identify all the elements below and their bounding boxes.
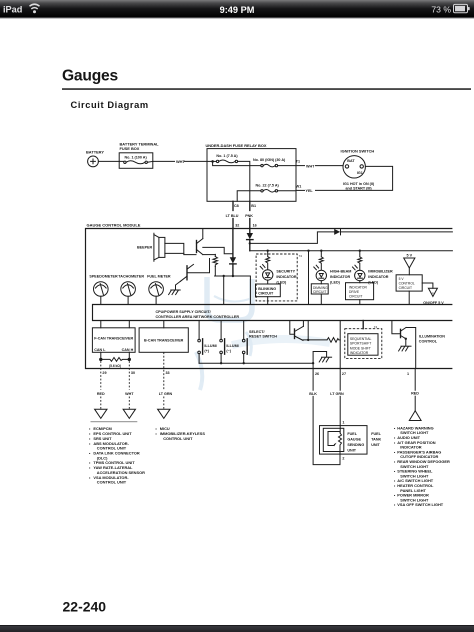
fuse No.1 (100 A) <box>119 156 153 164</box>
node immobilizer tap <box>359 250 361 252</box>
svg-text:SPORTSHIFT: SPORTSHIFT <box>350 342 371 346</box>
svg-text:CIRCUIT: CIRCUIT <box>313 290 326 294</box>
illumi minus connector <box>220 321 222 340</box>
svg-text:30: 30 <box>131 371 135 375</box>
wire LT GRN fuel signal <box>339 369 341 434</box>
off-page arrow A2 <box>123 409 135 418</box>
svg-text:27: 27 <box>342 372 346 376</box>
svg-text:CIRCUIT: CIRCUIT <box>399 286 412 290</box>
svg-text:RED: RED <box>411 392 419 396</box>
off-page arrow A4 <box>409 411 421 421</box>
svg-text:UNIT: UNIT <box>371 443 380 447</box>
svg-text:INDICATOR: INDICATOR <box>349 286 367 290</box>
security indicator dashed enclosure <box>256 254 297 301</box>
svg-text:WHT: WHT <box>306 165 315 169</box>
svg-text:(+): (+) <box>204 349 209 353</box>
svg-text:DRIVE: DRIVE <box>349 290 360 294</box>
destination list middle <box>155 426 205 441</box>
speedometer M1 <box>89 275 118 305</box>
svg-text:No. 22 (7.5 A): No. 22 (7.5 A) <box>256 183 280 187</box>
svg-text:SENDING: SENDING <box>347 443 364 447</box>
svg-text:LT GRN: LT GRN <box>330 392 344 396</box>
wire PNK to LED rail <box>249 240 251 251</box>
svg-text:GAUGE: GAUGE <box>347 438 361 442</box>
svg-text:A: A <box>432 291 434 295</box>
wire rail to CPU <box>223 276 225 305</box>
wire drop to beeper ground rail <box>214 254 216 276</box>
svg-text:CONTROL UNIT: CONTROL UNIT <box>97 480 127 485</box>
sequential sportshift indicator box <box>348 334 378 356</box>
svg-text:RESET SWITCH: RESET SWITCH <box>249 334 277 338</box>
indicator drive circuit box <box>359 281 361 283</box>
svg-text:16: 16 <box>253 224 257 228</box>
B-CAN dashed lead <box>163 352 165 409</box>
node high-beam tap <box>320 250 322 252</box>
off-page arrow A1 <box>95 409 107 418</box>
svg-text:CONTROL: CONTROL <box>419 340 438 344</box>
bypass wire to fuse No.80 <box>213 161 261 165</box>
svg-text:WHT: WHT <box>125 392 134 396</box>
svg-text:W1: W1 <box>296 184 302 188</box>
destination list left <box>89 426 145 484</box>
svg-text:PNK: PNK <box>245 214 253 218</box>
svg-text:5 V: 5 V <box>399 277 405 281</box>
dimming circuit box <box>320 281 322 284</box>
svg-text:No. 80 (IGN) (30 A): No. 80 (IGN) (30 A) <box>253 158 286 162</box>
sequential sportshift dashed enclosure <box>345 329 382 359</box>
bracket under arrows <box>91 421 138 423</box>
svg-text:Circuit Diagram: Circuit Diagram <box>71 100 149 110</box>
svg-text:UNIT: UNIT <box>347 449 356 453</box>
svg-text:HIGH-BEAM: HIGH-BEAM <box>330 270 351 274</box>
svg-text:MODE SHIFT: MODE SHIFT <box>350 346 371 350</box>
svg-text:32: 32 <box>235 224 239 228</box>
svg-text:TACHOMETER: TACHOMETER <box>118 275 144 279</box>
LED D4 security indicator <box>260 265 273 280</box>
svg-text:ILLUMI: ILLUMI <box>204 344 216 348</box>
svg-text:ILLUMINATION: ILLUMINATION <box>419 335 445 339</box>
svg-text:BEEPER: BEEPER <box>137 246 153 250</box>
under-dash fuse relay box <box>206 143 297 201</box>
wire fuse No.22 to C8 drop <box>237 191 261 202</box>
svg-text:CONTROL: CONTROL <box>399 282 415 286</box>
svg-text:BLINKING: BLINKING <box>258 287 276 291</box>
wire beeper step to LT BLU <box>203 247 233 253</box>
wire battery to battery terminal fuse box <box>98 160 119 162</box>
svg-text:FUSE BOX: FUSE BOX <box>120 146 140 151</box>
illumi plus connector <box>198 321 200 340</box>
fuel sender signal lead LT GRN <box>339 321 341 369</box>
svg-text:UNDER-DASH FUSE RELAY BOX: UNDER-DASH FUSE RELAY BOX <box>206 143 267 148</box>
svg-text:SELECT/: SELECT/ <box>249 330 265 334</box>
wire WHT to ignition switch <box>296 165 305 167</box>
svg-text:T1: T1 <box>296 160 300 164</box>
svg-text:FUEL: FUEL <box>371 432 381 436</box>
resistor R5 <box>303 338 340 343</box>
wire beeper output upper <box>165 243 196 254</box>
battery terminal fuse box <box>119 142 159 169</box>
svg-text:CIRCUIT: CIRCUIT <box>349 294 362 298</box>
svg-text:RED: RED <box>97 392 105 396</box>
svg-text:ILLUMI: ILLUMI <box>226 344 238 348</box>
svg-text:BAT: BAT <box>347 159 355 163</box>
B-CAN transceiver box <box>163 321 165 328</box>
transistor Q3 select/reset sense <box>290 321 294 335</box>
ground G1 <box>169 290 181 295</box>
svg-text:INDICATOR: INDICATOR <box>330 275 350 279</box>
fuel gauge sending unit box <box>323 428 344 451</box>
wire PNK B1 to module <box>249 201 251 228</box>
fuel sender variable resistor <box>328 432 342 451</box>
svg-text:VSA OFF SWITCH LIGHT: VSA OFF SWITCH LIGHT <box>397 502 444 507</box>
svg-text:INDICATOR: INDICATOR <box>368 275 388 279</box>
ignition switch SW1 <box>341 149 375 191</box>
tachometer M2 <box>118 275 144 305</box>
CAN termination resistor R4 <box>101 352 130 359</box>
ground G2 <box>319 357 331 362</box>
svg-text:SEQUENTIAL: SEQUENTIAL <box>350 337 372 341</box>
node: main feed junction <box>211 160 214 163</box>
svg-text:CIRCUIT: CIRCUIT <box>258 292 274 296</box>
svg-text:LT BLU: LT BLU <box>226 214 239 218</box>
module internal ground link <box>313 352 327 369</box>
CAN L dashed lead <box>100 361 102 409</box>
transistor Q4 illumination control <box>392 321 400 334</box>
svg-text:CPU/POWER SUPPLY CIRCUIT/: CPU/POWER SUPPLY CIRCUIT/ <box>156 310 211 314</box>
svg-text:INDICATOR: INDICATOR <box>350 351 369 355</box>
wire branch to backup diode rail <box>250 232 334 244</box>
svg-text:5 V: 5 V <box>407 254 413 258</box>
transistor Q2 fuel-meter area <box>176 259 210 290</box>
svg-text:BATTERY: BATTERY <box>86 150 104 155</box>
svg-text:SPEEDOMETER: SPEEDOMETER <box>89 275 118 279</box>
wire fuse No.1 to B1 drop <box>238 161 250 201</box>
battery icon <box>454 4 468 12</box>
svg-text:INDICATOR: INDICATOR <box>276 275 296 279</box>
destination list right <box>394 425 450 507</box>
fuel tank unit box <box>320 426 368 455</box>
blinking circuit box <box>267 280 269 284</box>
svg-text:CAN L: CAN L <box>94 348 106 352</box>
svg-text:1: 1 <box>342 421 344 425</box>
F-CAN transceiver box <box>101 321 130 328</box>
wire CPU sense drop <box>307 321 309 340</box>
bottom toolbar <box>0 625 474 632</box>
svg-text:GAUGE CONTROL MODULE: GAUGE CONTROL MODULE <box>87 222 141 227</box>
wire IG1 return loop <box>316 166 393 190</box>
node PNK branch junction <box>249 242 251 244</box>
heading rule <box>62 88 471 90</box>
svg-text:33: 33 <box>166 371 170 375</box>
node security tap <box>267 250 269 252</box>
svg-text:SECURITY: SECURITY <box>276 270 295 274</box>
wire RED illumination output <box>414 369 416 411</box>
svg-text:B-CAN TRANSCEIVER: B-CAN TRANSCEIVER <box>144 339 184 343</box>
battery B1 <box>86 150 104 167</box>
transistor Q1 beeper driver <box>197 229 216 255</box>
illumination ground rail <box>199 362 313 364</box>
svg-text:iPad: iPad <box>3 5 22 15</box>
svg-text:26: 26 <box>315 372 319 376</box>
LED D5 high-beam indicator <box>314 265 327 280</box>
wifi icon <box>30 4 40 9</box>
resistor R1 security <box>266 251 270 270</box>
svg-text:LT GRN: LT GRN <box>159 392 173 396</box>
sportshift indicator lead <box>362 321 364 329</box>
svg-text:74: 74 <box>374 325 378 329</box>
svg-text:C8: C8 <box>234 204 239 208</box>
svg-text:9:49 PM: 9:49 PM <box>220 5 255 15</box>
svg-text:IMMOBILIZER: IMMOBILIZER <box>368 270 393 274</box>
svg-text:22-240: 22-240 <box>63 599 107 615</box>
wire BLK fuel return <box>313 369 340 465</box>
ground G3 <box>399 346 411 351</box>
resistor R3 immobilizer <box>358 251 362 271</box>
svg-text:IG1: IG1 <box>357 171 363 175</box>
svg-text:29: 29 <box>102 371 106 375</box>
wire 5V LED supply rail <box>250 250 453 252</box>
svg-text:CONTROL UNIT: CONTROL UNIT <box>163 436 193 441</box>
svg-text:74: 74 <box>299 254 303 258</box>
diode D3 right-pointing on top rail <box>334 229 340 235</box>
svg-text:CAN H: CAN H <box>122 348 134 352</box>
svg-text:1: 1 <box>407 372 409 376</box>
svg-text:(−): (−) <box>226 349 231 353</box>
wire LT BLU C8 to module <box>232 201 234 228</box>
svg-text:(LED): (LED) <box>330 280 341 284</box>
svg-text:2: 2 <box>342 457 344 461</box>
svg-text:FUEL: FUEL <box>347 432 357 436</box>
LED D6 immobilizer indicator <box>353 265 365 280</box>
svg-text:FUEL METER: FUEL METER <box>147 275 171 279</box>
svg-text:73 %: 73 % <box>431 4 451 14</box>
fuse No.1 (7.5 A) <box>207 154 238 163</box>
svg-text:Gauges: Gauges <box>62 68 119 85</box>
beeper sub-rail <box>215 276 251 305</box>
fuse No.22 (7.5 A) <box>256 183 297 192</box>
diode D2 on LT BLU <box>232 229 234 258</box>
svg-text:IG1 HOT in ON (II): IG1 HOT in ON (II) <box>343 182 375 186</box>
svg-text:F-CAN TRANSCEIVER: F-CAN TRANSCEIVER <box>94 337 133 341</box>
watermark swirl <box>196 277 330 390</box>
svg-text:(5.6 kΩ): (5.6 kΩ) <box>109 364 121 368</box>
fuse No.80 (IGN) (30 A) <box>253 158 296 167</box>
node rail-LTBLU <box>232 275 234 277</box>
svg-text:TANK: TANK <box>371 438 381 442</box>
5V control circuit box <box>396 275 422 291</box>
wire rail to CPU mid <box>307 250 309 252</box>
off-page arrow A3 <box>158 409 170 418</box>
CPU / power supply box <box>93 305 453 321</box>
select/reset switch connector <box>243 321 245 340</box>
svg-text:BLK: BLK <box>309 392 317 396</box>
fuel meter M3 <box>147 275 171 305</box>
diode D1 on PNK feed <box>249 229 251 234</box>
svg-text:No. 1 (100 A): No. 1 (100 A) <box>124 156 147 160</box>
svg-text:No. 1 (7.5 A): No. 1 (7.5 A) <box>216 154 238 158</box>
wire WHT to under-dash fuse box <box>153 160 175 162</box>
svg-text:B1: B1 <box>251 204 256 208</box>
svg-text:IGNITION SWITCH: IGNITION SWITCH <box>341 149 375 154</box>
CAN H dashed lead <box>128 361 130 409</box>
svg-text:YEL: YEL <box>306 189 314 193</box>
on/off 5V buffer triangle <box>422 283 433 288</box>
resistor R2 high-beam <box>319 251 323 270</box>
svg-text:CONTROLLER AREA NETWORK CONTRO: CONTROLLER AREA NETWORK CONTROLLER <box>156 315 240 319</box>
beeper BZ1 <box>137 233 165 261</box>
